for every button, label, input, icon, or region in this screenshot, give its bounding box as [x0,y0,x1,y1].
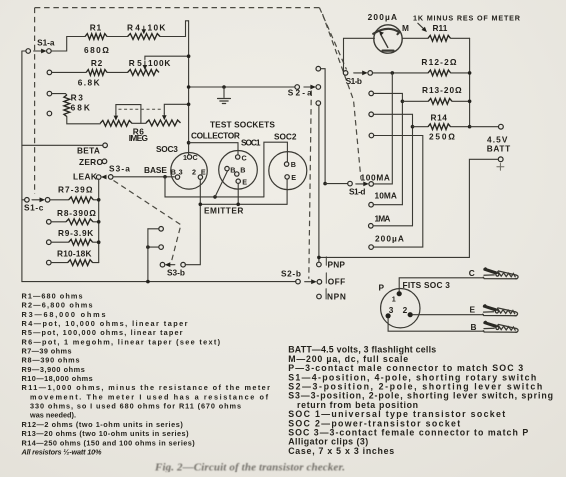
socket SOC3 pin E [198,175,202,179]
S1 dashed linkage diagonal to S1-b [319,8,346,70]
socket SOC1 pin B right [235,172,239,176]
svg-text:R8-390Ω: R8-390Ω [57,208,96,218]
resistor R8 [66,219,93,225]
wire pin 2 to clip E [413,314,484,316]
wire contact 2 to R13 riser [373,93,402,204]
svg-text:B: B [171,168,176,177]
wire S3-b wiper to emitter line [185,179,200,264]
wire R7 to bus [93,199,98,201]
wire base net L-run [165,177,264,197]
switch S3-a contact LEAK at R7 bus top [96,175,101,180]
svg-text:All resistors ½-watt 10%: All resistors ½-watt 10% [21,448,103,457]
svg-text:R11—1,000 ohms, minus the resi: R11—1,000 ohms, minus the resistance of … [22,383,271,392]
svg-text:1: 1 [183,153,187,162]
svg-text:S2-b: S2-b [281,268,301,278]
wire R1 to R4 [107,36,128,38]
node PNP junction [317,256,321,260]
connector P pin 1 [397,291,402,296]
switch position tick PNP [325,257,327,265]
resistor R10 [68,260,93,266]
meter scale arc [373,29,399,34]
svg-text:S3-a: S3-a [109,163,130,173]
switch S2-b wiper [296,279,301,284]
switch S2-a contact middle [316,85,321,90]
svg-text:E: E [470,305,476,315]
connector P pin 2 [408,312,413,317]
resistor R9 [69,239,93,245]
wire S1-a contact to R1 [51,37,85,52]
wire S3-a wiper to BASE [113,176,174,178]
wire base diagonal to SOC1 B [215,171,228,197]
wire R6 right wiper to bus [164,104,188,113]
svg-text:2: 2 [192,168,196,177]
svg-text:R9—3,900 ohms: R9—3,900 ohms [22,365,85,374]
svg-text:C: C [193,153,198,162]
switch S3-b contact 1 [159,227,164,232]
svg-text:R9-3.9K: R9-3.9K [58,228,93,238]
switch S2-a contact top [316,66,321,71]
svg-text:3: 3 [179,168,183,177]
switch S1-c contact [45,198,50,203]
switch S1-d contact 100MA [369,182,374,187]
wire R6 section link [132,122,146,124]
svg-text:Fig. 2—Circuit of the transist: Fig. 2—Circuit of the transistor checker… [154,462,345,474]
socket SOC3 pin C [187,155,191,159]
wire S1-c contact to R7 [50,199,69,201]
wire SOC1 E to emitter rail [237,183,239,204]
wire collector to SOC1 C [187,141,191,145]
switch position tick NPN [325,289,327,299]
switch S3-a contact BETA [103,143,108,148]
wire emitter rail [200,203,287,205]
svg-text:6.8K: 6.8K [78,77,100,87]
wire pin 3 to clip B [388,318,484,331]
socket SOC3 body [171,153,208,190]
svg-text:TEST SOCKETS: TEST SOCKETS [210,119,275,129]
wire 10MA contact to riser [373,204,402,206]
svg-text:S2-a: S2-a [288,88,312,98]
dashed gang line R6 dual pot [119,108,162,110]
node R13 left junction [401,100,405,104]
svg-text:S1-c: S1-c [24,203,44,213]
wire S1-b contact to R12 [372,72,428,74]
wire S2-a bottom contact down to PNP [318,105,320,262]
switch S1-b contact 2 [369,91,374,96]
switch S2-a contact bottom [316,101,321,106]
svg-text:R10-18K: R10-18K [57,249,92,259]
wire 100MA contact to R12 riser [373,73,392,184]
socket SOC1 pin E [236,179,240,183]
switch S2-b contact NPN [317,294,322,299]
svg-text:E: E [291,173,296,182]
wire R2 to R5 [107,71,128,73]
wire R13 to bus [452,100,470,102]
svg-text:100K: 100K [148,58,171,68]
svg-text:R13—20 ohms (two 10-ohm units: R13—20 ohms (two 10-ohm units in series) [22,429,190,438]
pot arrow R5 wiper [144,61,146,66]
switch S1-c contact 3 with R9 [47,240,52,245]
svg-text:EMITTER: EMITTER [204,205,244,215]
svg-text:330 ohms, so I used 680 ohms f: 330 ohms, so I used 680 ohms for R11 (67… [30,402,241,411]
wire 1MA contact to riser [373,225,413,227]
svg-text:FITS SOC 3: FITS SOC 3 [403,280,451,290]
S1 ganged-switch dashed linkage, top border [35,7,320,9]
svg-text:SOC3: SOC3 [156,144,178,154]
switch S1-a contact 3 [47,91,52,96]
svg-text:R12—2 ohms (two 1-ohm units in: R12—2 ohms (two 1-ohm units in series) [22,420,184,429]
svg-text:S1-b: S1-b [346,76,363,86]
switch S3-b contact 2 [159,245,164,250]
wire bus to S2-a [189,86,295,88]
wire R4 right end up to bus [160,21,189,37]
svg-text:R5—pot, 100,000 ohms, linear t: R5—pot, 100,000 ohms, linear taper [22,328,183,337]
svg-text:ZERO: ZERO [79,157,103,167]
switch S1-d contact 1MA [369,224,374,229]
wire collector bus vertical [188,21,190,155]
svg-text:NPN: NPN [327,291,346,301]
switch S1-a wiper [22,50,26,52]
wire R14 junction to battery terminal [470,126,499,128]
switch S1-b contact 1 [368,71,373,76]
meter M body [374,25,402,53]
wire contact 3 to R14 riser [373,114,412,226]
svg-text:SOC2: SOC2 [274,132,297,142]
switch position tick OFF [325,273,327,283]
battery terminal top [499,124,504,129]
S1 dashed linkage, left vertical to S1-a and S1-c [34,8,36,194]
wire SOC2 E to emitter rail [286,179,288,204]
svg-text:COLLECTOR: COLLECTOR [191,130,240,140]
svg-text:E: E [201,168,206,177]
wire battery return run [319,159,498,257]
battery terminal bottom [498,157,503,162]
wire contact to R3 [52,94,67,95]
svg-text:OFF: OFF [328,276,346,286]
resistor R14 [428,124,451,130]
svg-text:10MA: 10MA [375,191,398,201]
svg-text:BATT: BATT [487,143,511,153]
switch S1-a contact 2 [47,70,52,75]
switch S1-d wiper [325,183,348,185]
svg-text:S1-d: S1-d [349,187,366,197]
svg-text:10K: 10K [148,23,166,33]
svg-text:E: E [242,177,247,186]
switch S3-a wiper [105,176,108,178]
svg-text:was needed).: was needed). [29,411,76,420]
alligator clip B [483,321,518,332]
svg-text:68K: 68K [71,103,90,113]
potentiometer R6 right section [146,120,181,126]
svg-text:B: B [471,322,477,332]
wire R11 to right bus [451,37,470,39]
wire R12 to bus [451,72,470,74]
svg-text:3: 3 [389,305,394,315]
resistor R7 [69,197,94,203]
svg-text:B: B [291,160,296,169]
svg-text:2: 2 [403,305,408,315]
svg-text:R1: R1 [90,23,102,33]
socket SOC2 body [269,152,307,190]
wire R6 left wiper jog [116,105,141,124]
svg-text:IMEG: IMEG [129,133,148,143]
svg-text:R6—pot, 1 megohm, linear taper: R6—pot, 1 megohm, linear taper (see text… [22,337,221,346]
wire pin 1 to clip C [399,278,483,291]
wire R14 left [413,126,429,128]
svg-text:B: B [240,165,245,174]
S3 ganged-switch dashed linkage S3-a to S3-b [114,181,181,262]
switch S2-a wiper [295,85,300,90]
ground [222,85,226,89]
svg-text:R14—250 ohms (150 and 100 ohms: R14—250 ohms (150 and 100 ohms in series… [22,438,196,447]
wire contact to R2 [52,71,87,73]
node base-SOC1 junction [213,195,217,199]
wire R5 wiper to bus [145,56,189,59]
svg-text:S3-b: S3-b [167,267,185,277]
svg-text:R1—680 ohms: R1—680 ohms [22,291,83,300]
wire left rail from S1-a down to bottom [21,51,23,282]
annotation arrow to R11 [418,23,425,30]
svg-text:200µA: 200µA [368,12,398,22]
switch S1-c contact 2 with R8 [47,220,52,225]
switch S1-a contact 4 unused [47,111,52,116]
svg-text:1K MINUS RES OF METER: 1K MINUS RES OF METER [413,14,521,23]
svg-text:P: P [379,283,385,293]
connector P pin 3 [386,313,391,318]
svg-text:S1-a: S1-a [37,38,55,48]
switch S2-b contact PNP [317,262,322,267]
switch S2-b contact OFF [317,280,322,285]
socket SOC1 pin B left [225,166,229,170]
wire bottom run to S2-b [22,281,296,283]
svg-text:C: C [469,268,475,278]
svg-text:SOC1: SOC1 [241,138,261,148]
wire rail tap to BETA contact [22,144,103,146]
switch S3-b wiper and contact [160,262,165,267]
wire contact 4 down-run to 200uA contact [373,136,422,248]
svg-text:200µA: 200µA [375,233,404,243]
svg-text:R13-20Ω: R13-20Ω [422,85,462,95]
switch S1-d contact 200uA [369,245,374,250]
resistor R3 [64,95,70,117]
wire S3-b contacts down to bottom run [147,229,149,282]
resistor R2 [86,70,107,76]
svg-text:M: M [402,23,409,33]
node R12 left junction [391,71,395,75]
svg-text:R10—18,000 ohms: R10—18,000 ohms [22,374,93,383]
battery polarity plus mark [497,163,504,170]
svg-text:BASE: BASE [144,165,167,175]
socket SOC1 body [219,151,258,190]
node R14 left junction [411,125,415,129]
meter bottom bar [383,49,394,51]
potentiometer R4 [128,34,160,40]
S1 dashed linkage diagonal to S1-d [323,14,362,180]
svg-text:100MA: 100MA [361,173,391,183]
switch S1-b contact 3 [369,112,374,117]
meter needle [380,34,387,48]
resistor R12 [428,70,451,76]
wire right bus vertical [469,38,471,127]
node base junction [163,175,167,179]
potentiometer R6 left section [100,120,132,126]
pot arrow R6 right wiper [163,113,165,116]
wire R7-R10 right bus [98,179,100,262]
svg-text:Case, 7 x 5 x 3 inches: Case, 7 x 5 x 3 inches [288,446,394,456]
switch S1-d contact 10MA [369,202,374,207]
svg-text:R11: R11 [433,23,448,33]
svg-text:250Ω: 250Ω [429,131,455,141]
resistor R1 [85,34,107,40]
svg-text:R14: R14 [431,112,448,122]
switch S1-c wiper [22,199,25,201]
svg-text:R8—390 ohms: R8—390 ohms [22,356,80,365]
wire R14 to bus [451,126,470,128]
svg-text:1: 1 [392,295,396,304]
wire S2-a top contact to S1-d wiper line [321,69,326,184]
alligator clip E [483,305,518,316]
switch S3-a contact ZERO [102,159,107,164]
pot arrow R6 left wiper [115,114,117,117]
switch S1-c contact 4 with R10 [47,260,52,265]
S2 ganged-switch dashed linkage S2-a to S2-b [309,91,312,279]
node S1-d wiper junction [323,182,327,186]
socket SOC1 pin C [236,155,240,159]
svg-text:R7-39Ω: R7-39Ω [58,184,93,194]
svg-text:PNP: PNP [328,259,346,269]
wire meter left to S1-b [344,38,375,73]
switch S1-b contact 4 [369,133,374,138]
svg-text:1MA: 1MA [375,214,391,224]
svg-text:R7—39 ohms: R7—39 ohms [22,347,72,356]
connector P body [381,289,420,328]
pot arrow R4 wiper [143,26,145,30]
resistor R11 [428,35,451,41]
socket SOC3 pin B [175,175,179,179]
alligator clip C [483,268,518,279]
wire R3 bottom to R6 [67,117,100,124]
potentiometer R5 [128,70,159,76]
svg-text:C: C [242,153,247,162]
switch S1-b wiper [343,71,348,76]
svg-text:LEAK: LEAK [73,171,97,181]
resistor R13 [428,98,452,104]
wire R13 left [402,100,428,102]
svg-text:R2: R2 [91,58,103,68]
socket SOC2 pin E [285,175,289,179]
socket SOC2 pin B [284,162,288,166]
svg-text:680Ω: 680Ω [84,45,109,55]
svg-text:movement. The meter I used has: movement. The meter I used has a resista… [30,392,269,401]
wire base riser to SOC2 B [264,142,288,197]
svg-text:BETA: BETA [77,146,100,156]
switch S1-a contact 1 [47,49,52,54]
wire meter right to R11 [402,37,428,39]
